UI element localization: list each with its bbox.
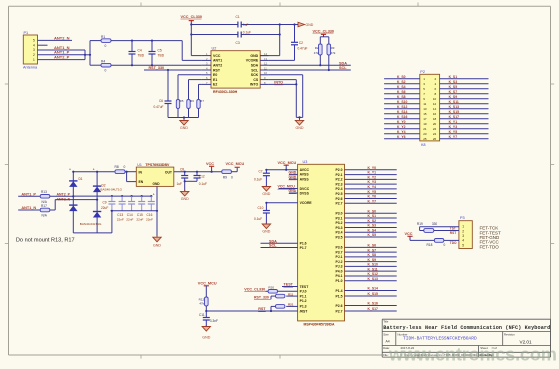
label RST_330: [149, 66, 165, 70]
svg-text:22: 22: [433, 127, 437, 131]
wire SCK: [268, 75, 302, 118]
svg-text:21: 21: [423, 127, 427, 131]
svg-text:1uF: 1uF: [243, 23, 249, 27]
svg-text:D1: D1: [79, 177, 83, 181]
wire ANT1 rail: [111, 40, 202, 61]
wire U1 OUT rail: [174, 171, 223, 173]
title block labels: [383, 319, 515, 357]
svg-text:K_Y7: K_Y7: [449, 135, 458, 139]
ground GND below C8 C12: [181, 190, 190, 201]
title block frame: [382, 319, 550, 357]
capacitor C6: [154, 99, 172, 118]
svg-text:K_S5: K_S5: [368, 233, 377, 237]
wire ANT1_N to R17: [18, 209, 40, 211]
label GND AVSS1: [289, 171, 297, 176]
svg-text:VCC: VCC: [206, 162, 214, 166]
svg-text:PJ.0: PJ.0: [300, 290, 307, 294]
svg-text:K_Y5: K_Y5: [368, 190, 377, 194]
label ANT1_P: [54, 50, 70, 55]
svg-text:P1.4: P1.4: [336, 289, 343, 293]
svg-text:3.3nF: 3.3nF: [210, 319, 218, 323]
svg-text:U1: U1: [137, 163, 142, 167]
label sheet size A4: [386, 339, 390, 343]
svg-text:SDA: SDA: [339, 61, 347, 65]
svg-text:RST: RST: [258, 307, 266, 311]
capacitor C2: [291, 25, 307, 61]
label GND DVSS: [289, 189, 297, 194]
label RST: [258, 307, 266, 312]
svg-text:4: 4: [462, 239, 464, 243]
label VCC_CL330 top: [181, 15, 203, 19]
capacitor C9: [101, 196, 115, 211]
connector P1: [23, 31, 38, 69]
capacitor C5: [149, 41, 165, 66]
svg-text:1uF: 1uF: [177, 182, 183, 186]
power port VCC_MCU: [226, 162, 245, 167]
wire U2 VCC feed: [191, 25, 201, 56]
label ANT2_N mid: [57, 197, 71, 201]
wire R9 to VCC_MCU: [231, 167, 237, 171]
label INTO: [274, 81, 283, 85]
capacitor C3: [236, 31, 252, 45]
wire storage rail: [73, 195, 152, 197]
wire R21 to P1.3: [270, 306, 298, 312]
label SCL: [339, 66, 347, 70]
svg-text:K_Y6: K_Y6: [368, 195, 377, 199]
svg-text:5: 5: [462, 243, 464, 247]
svg-text:K_S13: K_S13: [368, 277, 378, 281]
svg-text:P2: P2: [420, 70, 425, 74]
wire E0: [178, 75, 202, 99]
capacitor C11: [199, 311, 218, 327]
svg-text:K_S9: K_S9: [368, 258, 377, 262]
svg-text:TST: TST: [450, 227, 456, 231]
svg-text:0.47uF: 0.47uF: [154, 105, 164, 109]
svg-text:Antenna: Antenna: [23, 65, 38, 69]
wire ground rail U2 aux: [168, 104, 199, 121]
wire RST_330: [144, 69, 202, 99]
svg-text:R20: R20: [268, 286, 274, 290]
wire DVSS: [289, 192, 298, 194]
wire pin1 ANT2_P: [38, 59, 86, 61]
svg-text:PJ.1: PJ.1: [336, 255, 343, 259]
resistor R12: [199, 297, 208, 306]
svg-text:ANT2_P: ANT2_P: [54, 55, 70, 60]
svg-text:K_Y4: K_Y4: [397, 130, 406, 134]
svg-text:1: 1: [462, 225, 464, 229]
svg-text:AVSS: AVSS: [300, 178, 310, 182]
resistor R8: [115, 165, 126, 173]
label BAS40-04LT1G lower: [80, 222, 102, 226]
label ANT2_P mid: [57, 192, 71, 196]
svg-text:10: 10: [264, 71, 267, 75]
label FET-TEST: [480, 230, 502, 235]
svg-text:0: 0: [124, 165, 126, 169]
svg-text:N/A: N/A: [42, 214, 48, 218]
label ANT2_P: [54, 55, 70, 60]
svg-text:P2.4: P2.4: [336, 187, 343, 191]
wire pin5 ANT2_N: [38, 39, 73, 41]
svg-text:P3.6: P3.6: [336, 246, 343, 250]
label SDA U3: [269, 240, 278, 244]
svg-text:22nF: 22nF: [117, 218, 124, 222]
watermark www.cntronics.com: [388, 345, 557, 365]
label P2 left nets: [397, 75, 407, 139]
svg-text:E1: E1: [213, 78, 217, 82]
svg-text:A4: A4: [386, 339, 390, 343]
svg-text:24: 24: [433, 132, 437, 136]
label FET-VCC: [480, 240, 500, 245]
svg-text:R8: R8: [115, 165, 119, 169]
wire VCC_CL330 to R20: [265, 290, 268, 292]
svg-text:4: 4: [33, 43, 35, 47]
svg-text:K_S16: K_S16: [397, 115, 407, 119]
svg-text:GND: GND: [289, 171, 297, 175]
svg-text:K_Y1: K_Y1: [449, 120, 458, 124]
resistor R6: [187, 99, 195, 109]
svg-text:P1.7: P1.7: [300, 246, 307, 250]
svg-text:0.47uF: 0.47uF: [298, 46, 308, 50]
svg-text:R5: R5: [180, 99, 184, 103]
svg-text:SCL: SCL: [251, 68, 259, 72]
svg-text:23: 23: [423, 132, 427, 136]
svg-text:ANT2: ANT2: [213, 64, 222, 68]
svg-text:P2.5: P2.5: [336, 192, 343, 196]
svg-text:TPS76933DBV: TPS76933DBV: [145, 163, 170, 167]
svg-text:0.1uF: 0.1uF: [254, 178, 262, 182]
document number: [403, 335, 477, 341]
svg-text:C14: C14: [127, 213, 133, 217]
svg-text:Do not mount R13, R17: Do not mount R13, R17: [16, 237, 75, 243]
wire P2 left pins: [384, 79, 420, 139]
svg-text:R4: R4: [101, 60, 105, 64]
svg-text:RST_330: RST_330: [254, 296, 269, 300]
wire antenna junction: [84, 41, 101, 66]
svg-text:INTO: INTO: [250, 83, 259, 87]
label VCC_MCU DVCC: [278, 185, 296, 190]
svg-text:DVCC: DVCC: [300, 187, 310, 191]
svg-text:RF430CL330H: RF430CL330H: [213, 90, 238, 94]
svg-text:K_S6: K_S6: [368, 244, 377, 248]
svg-text:Title: Title: [383, 319, 389, 323]
wire R19 to P3: [420, 230, 459, 232]
svg-text:K_S17: K_S17: [368, 307, 378, 311]
svg-text:47k: 47k: [199, 302, 204, 306]
svg-text:K_S7: K_S7: [449, 90, 458, 94]
svg-text:VCC_MCU: VCC_MCU: [198, 281, 217, 285]
wire R8 to U1 IN: [125, 171, 136, 173]
label R19 330: [417, 222, 438, 226]
wire pin4 stub: [38, 44, 48, 46]
svg-text:K_S3: K_S3: [368, 224, 377, 228]
wire AVSS2: [289, 178, 298, 180]
svg-text:17: 17: [423, 117, 427, 121]
svg-text:IN: IN: [139, 170, 143, 174]
svg-text:K_S9: K_S9: [449, 95, 458, 99]
svg-text:VCC_CL330: VCC_CL330: [181, 15, 203, 19]
wire R20 to PJ.0: [278, 290, 298, 292]
resistor R17: [40, 204, 50, 218]
label VCC_CL330 pullups: [313, 29, 335, 33]
svg-text:C11: C11: [199, 313, 205, 317]
svg-text:C7: C7: [259, 169, 263, 173]
wire DVCC: [279, 188, 298, 190]
svg-text:K_Y7: K_Y7: [368, 199, 377, 203]
wire VCC to R18: [410, 239, 434, 241]
wire capacitor bank bottom: [111, 210, 159, 233]
wire VCORE: [268, 59, 294, 61]
label FET-GND: [480, 235, 500, 240]
svg-text:2: 2: [33, 53, 35, 57]
wire R2 to SDA: [319, 55, 321, 66]
connector P2 K8: [420, 70, 440, 147]
svg-text:K_Y0: K_Y0: [368, 166, 377, 170]
svg-text:RST_330: RST_330: [149, 66, 165, 70]
wire INTO: [268, 83, 297, 85]
svg-text:K_S8: K_S8: [368, 253, 377, 257]
svg-text:K_Y6: K_Y6: [397, 135, 406, 139]
revision V2.01: [520, 340, 532, 345]
svg-text:GND: GND: [250, 54, 258, 58]
svg-text:P2.6: P2.6: [336, 304, 343, 308]
svg-text:K_S15: K_S15: [368, 292, 378, 296]
svg-text:GND: GND: [289, 175, 297, 179]
label GND AVSS2: [289, 175, 297, 180]
label ANT1_N: [54, 45, 70, 50]
svg-text:R9: R9: [223, 175, 227, 179]
capacitor C15: [136, 196, 145, 221]
svg-text:330: 330: [432, 222, 438, 226]
svg-text:AVCC: AVCC: [300, 168, 310, 172]
svg-text:0.1uF: 0.1uF: [199, 182, 207, 186]
svg-text:K_S1: K_S1: [449, 75, 458, 79]
svg-text:0.1uF: 0.1uF: [243, 31, 251, 35]
svg-text:ANT2_P: ANT2_P: [57, 192, 71, 196]
svg-text:K_S5: K_S5: [449, 85, 458, 89]
svg-text:K_S0: K_S0: [368, 209, 377, 213]
svg-text:GND: GND: [262, 192, 270, 196]
svg-text:RST: RST: [450, 231, 456, 235]
resistor R5: [176, 99, 184, 109]
svg-text:22uF: 22uF: [101, 206, 108, 210]
svg-text:C13: C13: [117, 213, 123, 217]
svg-text:P1.2: P1.2: [300, 299, 307, 303]
ground GND below C7: [262, 185, 271, 196]
wire R18 to P3: [444, 239, 459, 241]
resistor R19: [424, 229, 434, 233]
svg-text:C16: C16: [147, 213, 153, 217]
svg-text:K_S2: K_S2: [397, 80, 406, 84]
svg-text:P3.7: P3.7: [336, 250, 343, 254]
svg-text:C12: C12: [199, 174, 205, 178]
svg-text:SCL: SCL: [339, 66, 347, 70]
regulator U1 TPS76933DBV: [136, 163, 174, 187]
svg-text:www.cntronics.com: www.cntronics.com: [388, 345, 557, 365]
svg-text:GND: GND: [153, 244, 161, 248]
svg-text:TEST: TEST: [300, 285, 310, 289]
label TDO net P3: [450, 241, 457, 245]
svg-text:BAS40-04LT1G: BAS40-04LT1G: [80, 222, 102, 226]
svg-text:P2.6: P2.6: [336, 197, 343, 201]
svg-text:BAS40-04LT1G: BAS40-04LT1G: [100, 187, 122, 191]
svg-text:2: 2: [462, 229, 464, 233]
label ANT1_P harvester: [21, 193, 36, 197]
svg-text:K_S10: K_S10: [397, 100, 407, 104]
svg-text:22nF: 22nF: [146, 218, 153, 222]
power port VCC_CL330 pullups: [320, 34, 329, 43]
svg-text:K_Y3: K_Y3: [368, 180, 377, 184]
svg-text:C8: C8: [180, 168, 184, 172]
label SDA: [339, 61, 347, 65]
svg-text:19: 19: [423, 122, 427, 126]
wire EN tie: [127, 172, 137, 182]
svg-text:P2.7: P2.7: [336, 202, 343, 206]
ground GND below C6 R5 R6 R7: [180, 119, 189, 130]
svg-text:R19: R19: [417, 222, 423, 226]
diode D2 pair BAS40-04LT1G: [93, 172, 123, 233]
note do not mount: [16, 237, 75, 243]
svg-text:VCC: VCC: [213, 54, 221, 58]
svg-text:K_S2: K_S2: [368, 219, 377, 223]
svg-text:SCK: SCK: [251, 73, 259, 77]
resistor R11: [276, 292, 294, 298]
capacitor C1: [236, 15, 249, 28]
svg-text:K_Y0: K_Y0: [397, 120, 406, 124]
svg-text:P3.3: P3.3: [336, 226, 343, 230]
svg-text:P2.7: P2.7: [336, 309, 343, 313]
wire E2: [199, 84, 202, 99]
svg-text:VCC_MCU: VCC_MCU: [278, 161, 297, 165]
svg-text:P2.2: P2.2: [336, 178, 343, 182]
resistor R13: [40, 190, 50, 204]
svg-text:GND: GND: [289, 189, 297, 193]
svg-text:P3.0: P3.0: [336, 212, 343, 216]
svg-text:P1.0: P1.0: [336, 279, 343, 283]
svg-text:18: 18: [433, 117, 437, 121]
svg-text:47k: 47k: [331, 51, 336, 55]
svg-text:C3: C3: [236, 41, 240, 45]
wire AVSS1: [289, 173, 298, 175]
svg-text:26: 26: [433, 137, 437, 141]
wire RST net: [205, 306, 297, 312]
svg-text:Size: Size: [383, 332, 389, 336]
power port VCC P3: [405, 232, 413, 241]
capacitor C12: [194, 172, 208, 186]
svg-text:P3.5: P3.5: [336, 235, 343, 239]
wire VCORE U3: [265, 202, 297, 204]
wire R13 to rectifier: [50, 195, 73, 197]
svg-text:VCC: VCC: [405, 232, 413, 236]
svg-text:0: 0: [231, 175, 233, 179]
svg-text:AVSS: AVSS: [300, 173, 310, 177]
svg-text:K_S12: K_S12: [368, 272, 378, 276]
title text: [383, 325, 550, 331]
svg-text:E0: E0: [213, 73, 217, 77]
svg-text:VCC_MCU: VCC_MCU: [226, 162, 245, 166]
label TST net P3: [450, 227, 456, 231]
wire pin3 ANT1_N: [38, 49, 86, 51]
svg-text:13: 13: [423, 107, 427, 111]
label RST net P3: [450, 231, 456, 235]
power port VCC_CL330 top: [189, 21, 194, 25]
wire harvester ground rail: [73, 232, 112, 234]
svg-text:K_Y2: K_Y2: [397, 125, 406, 129]
svg-text:R1: R1: [101, 35, 105, 39]
svg-text:P2.0: P2.0: [336, 168, 343, 172]
svg-text:INTO: INTO: [274, 81, 283, 85]
svg-text:K_S10: K_S10: [368, 263, 378, 267]
svg-text:3: 3: [33, 48, 35, 52]
svg-text:K_S3: K_S3: [449, 80, 458, 84]
label ANT2_N: [54, 35, 70, 40]
svg-text:P3: P3: [460, 216, 465, 220]
svg-text:R7: R7: [200, 99, 204, 103]
svg-text:TBD: TBD: [138, 54, 145, 58]
svg-text:12: 12: [264, 62, 267, 66]
svg-text:/RST: /RST: [300, 309, 309, 313]
label VCC_MCU RST: [198, 281, 217, 285]
svg-text:12: 12: [433, 102, 437, 106]
label VCC_CL330 R20: [244, 288, 265, 292]
svg-text:25: 25: [423, 137, 427, 141]
wire R3 to SCL: [328, 55, 330, 71]
svg-text:TBD: TBD: [158, 54, 165, 58]
svg-text:47k: 47k: [314, 51, 319, 55]
svg-text:GND: GND: [180, 126, 188, 130]
file path: [401, 353, 495, 357]
IC U2 RF430CL330H: [202, 47, 269, 95]
svg-text:MSP430FR5739IDA: MSP430FR5739IDA: [304, 323, 335, 327]
resistor R9: [222, 170, 233, 180]
svg-text:VCC_MCU: VCC_MCU: [278, 185, 296, 189]
svg-text:0: 0: [444, 243, 446, 247]
wire E1: [189, 80, 202, 99]
svg-text:File:: File:: [383, 353, 389, 357]
power port VCC_MCU AVCC: [284, 165, 289, 170]
svg-text:K_S4: K_S4: [368, 228, 377, 232]
svg-text:K_S17: K_S17: [449, 115, 459, 119]
svg-text:3: 3: [462, 234, 464, 238]
svg-text:GND: GND: [306, 23, 314, 27]
svg-text:CS: CS: [253, 78, 259, 82]
capacitor C4: [129, 41, 145, 66]
ground GND below C10: [262, 223, 271, 234]
ground GND below C11: [202, 325, 211, 340]
svg-text:GND: GND: [202, 336, 210, 340]
svg-text:GND: GND: [153, 182, 161, 186]
svg-text:K_S7: K_S7: [368, 248, 377, 252]
svg-text:U3: U3: [303, 160, 308, 164]
label RST_330 U3: [254, 296, 271, 300]
label U3 keyboard nets: [368, 166, 378, 311]
label ANT1_N harvester: [21, 206, 36, 210]
svg-text:C9: C9: [103, 200, 107, 204]
svg-text:EN: EN: [139, 180, 144, 184]
capacitor C7: [254, 169, 270, 186]
svg-text:VCC_CL330: VCC_CL330: [244, 288, 265, 292]
wire pin2 ANT1_P: [38, 54, 86, 56]
IC U3 MSP430FR5739IDA: [298, 160, 345, 327]
wire U1 GND down: [156, 186, 158, 237]
svg-text:K_Y4: K_Y4: [368, 185, 377, 189]
svg-text:U2: U2: [212, 47, 217, 51]
resistor R3: [327, 44, 336, 55]
label FET-TCK: [480, 226, 499, 231]
svg-text:P2.1: P2.1: [336, 173, 343, 177]
svg-text:GND: GND: [181, 197, 189, 201]
svg-text:R2: R2: [315, 46, 319, 50]
svg-text:C2: C2: [299, 41, 303, 45]
